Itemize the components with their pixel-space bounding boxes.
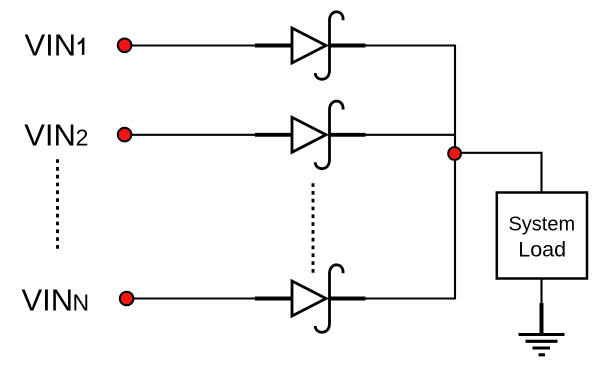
svg-text:Load: Load xyxy=(518,237,566,261)
wire VIN2 to diode D2 xyxy=(132,134,257,136)
svg-text:VIN: VIN xyxy=(24,117,76,152)
svg-text:VIN: VIN xyxy=(25,28,77,63)
ellipsis dotted line right (between D2 and DN) xyxy=(312,183,315,273)
System Load box xyxy=(497,193,587,279)
wire junction to load (horizontal) xyxy=(455,152,542,154)
diode D2 (ideal diode) xyxy=(255,101,366,168)
svg-text:VIN: VIN xyxy=(22,282,74,317)
ellipsis dotted line left (between VIN2 and VINN) xyxy=(56,159,59,249)
label VIN1 xyxy=(25,28,85,63)
ground symbol xyxy=(519,303,565,355)
wire down into load box xyxy=(540,152,542,193)
terminal dot VINN xyxy=(120,292,134,306)
terminal dot VIN1 xyxy=(118,39,132,53)
svg-text:2: 2 xyxy=(76,124,89,150)
wire VINN to diode DN xyxy=(134,297,257,299)
wire diode DN to bus xyxy=(365,297,456,299)
wire VIN1 to diode D1 xyxy=(132,44,257,46)
diode DN (ideal diode) xyxy=(255,265,366,332)
wire diode D2 to bus xyxy=(365,134,456,136)
junction node dot (output node) xyxy=(448,147,461,160)
wire diode D1 to bus xyxy=(365,44,456,46)
svg-text:N: N xyxy=(73,289,90,315)
svg-text:System: System xyxy=(508,213,575,235)
label VINN xyxy=(22,282,90,317)
label VIN2 xyxy=(24,117,88,152)
wire load box to ground xyxy=(540,279,542,306)
diode D1 (ideal diode) xyxy=(255,12,366,79)
terminal dot VIN2 xyxy=(118,128,132,142)
bus wire (vertical, OR-ed output) xyxy=(454,45,456,300)
